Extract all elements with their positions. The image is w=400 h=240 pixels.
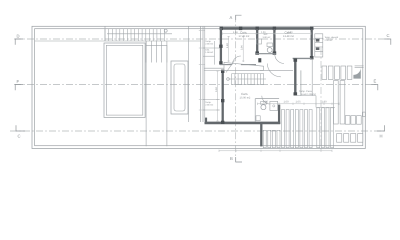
trellis strip 2 [340,81,345,124]
squares row G [337,134,363,143]
trellis strip 1 [334,81,339,124]
stair S2 arrow [227,78,266,81]
partition wall double [200,26,202,122]
hall wall V2b thin [300,70,302,95]
centerline F-E horizontal [14,84,378,86]
squares row F [345,116,361,125]
lower dark wall stub [205,118,208,123]
svg-text:H: H [380,134,383,139]
right wall jog [362,112,365,116]
svg-text:C: C [387,33,390,38]
partition P3 [311,29,313,58]
dimension line below building [219,150,332,152]
wc2 top wall [255,98,279,100]
corridor wall left [188,26,190,122]
strip dim line vertical [216,71,218,121]
svg-text:Dist.: Dist. [205,48,210,51]
svg-text:Cam.: Cam. [240,31,247,35]
wall stub below P3 [311,58,313,95]
stair S2 treads [232,74,264,85]
svg-text:1.98 m2: 1.98 m2 [205,51,214,54]
strip room lines [203,26,220,122]
svg-text:D: D [17,34,20,39]
dimension line room1b vertical [242,36,244,62]
door terrace with leaf [355,66,364,68]
pool outer [104,43,145,117]
deck area2 top boundary [316,107,335,109]
lower dark wall vertical left [222,70,224,124]
svg-text:3.94: 3.94 [241,45,244,50]
stair S2 break line [226,61,235,73]
svg-text:2.20: 2.20 [263,100,269,103]
axis marker A (top) [236,15,242,20]
svg-text:1.05: 1.05 [296,100,302,103]
axis marker B (bottom) [236,157,242,162]
svg-text:2.86 m2: 2.86 m2 [205,43,214,46]
lower dark wall horizontal [205,122,281,125]
svg-text:2.44 m2: 2.44 m2 [325,39,334,42]
wc1 toilet [267,48,272,53]
svg-text:3.00 m2: 3.00 m2 [263,36,272,39]
svg-text:C: C [18,134,21,139]
terrace divider [104,26,106,41]
stair S1 direction arrow [107,29,172,34]
svg-text:17.70 m2: 17.70 m2 [239,35,250,38]
deck planks area 2 [317,108,334,148]
door arc lower room [262,96,270,104]
terrace edge line [35,40,201,42]
axis marker C (right) [385,39,391,45]
bearing wall piers [219,45,222,48]
pier at stair head [258,58,261,62]
inner wall outline [35,29,363,146]
partition wall ticks [199,31,205,111]
centerline C-H horizontal [10,130,385,132]
wc2 shower [270,101,278,110]
centerline A-B vertical [235,15,237,162]
svg-text:scarii 1.06 m2: scarii 1.06 m2 [301,93,317,96]
axis marker H (bottom right) [377,125,385,131]
stair S1 top flight treads [105,29,164,41]
wc1 bottom wall [256,53,276,55]
deck planks area 1 [282,110,313,148]
svg-text:B: B [230,156,233,161]
planter outer [171,61,188,114]
wc1 sink [257,39,262,44]
hall wall V2 [294,58,296,95]
svg-text:15.00 m2: 15.00 m2 [240,97,251,100]
lower wall piers [221,70,224,73]
svg-text:Temp. depozit: Temp. depozit [325,36,339,39]
lower dark wall vertical right [260,124,262,146]
deck planks area 3 [263,130,280,147]
svg-text:Cam.: Cam. [241,92,248,96]
svg-text:Temp.: Temp. [205,40,211,43]
svg-text:A: A [230,15,233,20]
svg-text:1.80: 1.80 [322,100,328,103]
axis marker D (left) [15,39,23,45]
closet unit [315,34,323,57]
centerline D-C horizontal [14,38,391,40]
svg-text:13.48 m2: 13.48 m2 [283,35,294,38]
main top wall (load bearing) [220,27,314,30]
room2 bottom wall [293,57,312,59]
door arc room1 [232,56,241,65]
svg-text:WC: WC [264,33,268,36]
room1 bottom wall [220,64,232,66]
door arc dist [267,64,281,77]
dimension line top rooms [223,32,312,34]
axis marker F (left) [15,85,23,91]
stair S1 corner line [146,44,167,46]
dimension line lower [258,103,340,105]
svg-text:2.86 m2: 2.86 m2 [205,104,214,107]
stair S1 stringer right [166,45,168,146]
svg-text:4.08: 4.08 [233,31,238,34]
svg-text:E: E [374,79,377,84]
stair S1 stringer left [145,41,147,146]
wc2 toilet [261,105,266,110]
deck comb upper [322,66,352,79]
partition P2 [273,29,275,54]
svg-text:1.00: 1.00 [284,100,290,103]
svg-text:4.80: 4.80 [226,43,229,48]
threshold line [260,69,293,71]
axis marker C (bottom left) [16,125,25,131]
pool inner [106,45,143,115]
secondary vertical centerline [320,48,322,152]
planter inner [174,64,185,111]
svg-text:Cam.: Cam. [285,31,292,35]
stair S2 landing edge to wall [204,68,224,70]
axis marker E (right) [372,85,378,91]
wc2 sink [256,116,260,121]
svg-text:F: F [17,79,20,84]
svg-text:Temp.: Temp. [205,101,211,104]
partition P1 [256,29,258,54]
outer wall outline [32,26,365,148]
wall piers on top wall [220,27,223,30]
door arc room2 [275,54,284,63]
stair S2 landing [224,62,264,70]
svg-text:3.50: 3.50 [215,87,218,92]
stair S1 lower flight [146,41,167,63]
bearing wall left vertical [220,28,222,65]
wc2 wall vertical [278,105,280,124]
dimension line room1 vertical [227,36,229,62]
